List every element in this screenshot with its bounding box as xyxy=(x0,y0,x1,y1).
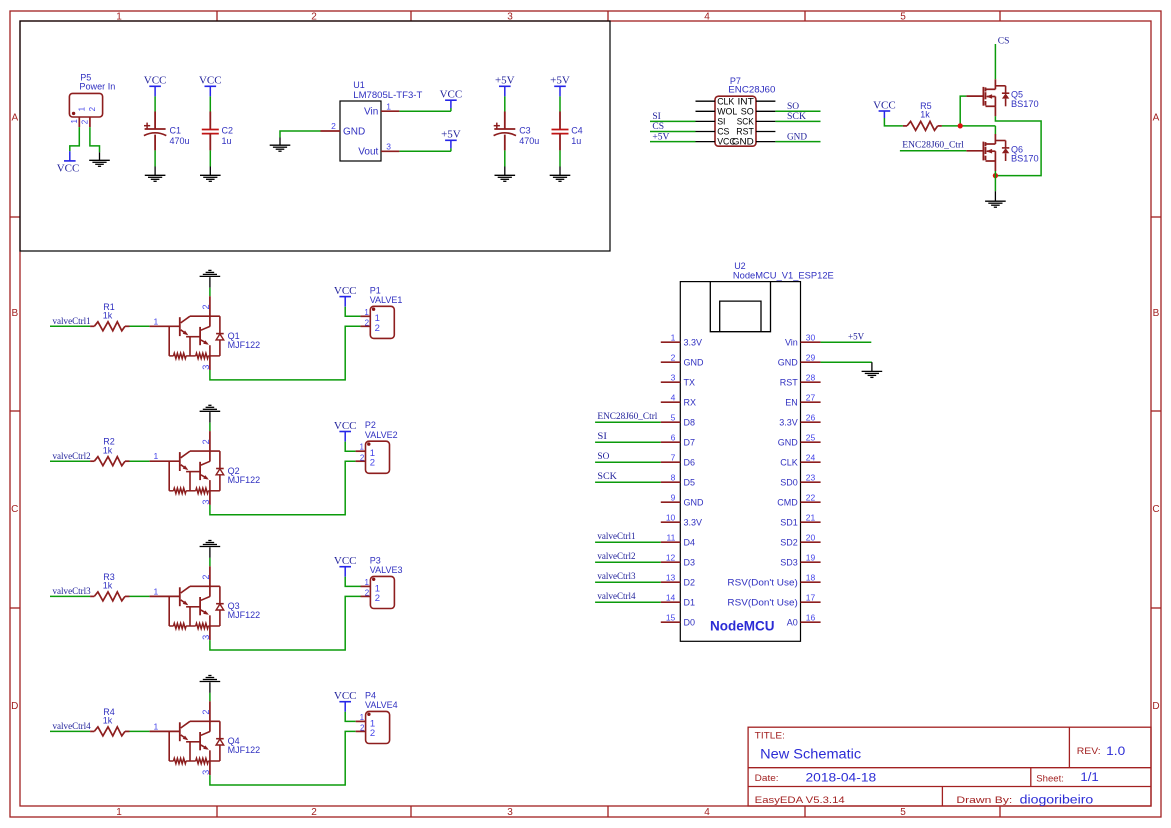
svg-text:20: 20 xyxy=(806,532,816,542)
net label valveCtrl4 wire (U2 pin 14) xyxy=(595,601,661,603)
wire U1 Vin to VCC xyxy=(399,110,451,112)
svg-text:+5V: +5V xyxy=(848,332,865,342)
svg-text:BS170: BS170 xyxy=(1011,154,1039,164)
svg-text:P2: P2 xyxy=(365,420,376,430)
wire Q2 emitter to P2 pin2 xyxy=(210,461,356,515)
svg-text:Drawn By:: Drawn By: xyxy=(956,795,1012,806)
U2 pin 29 (GND) xyxy=(801,361,821,363)
frame row ticks xyxy=(10,216,20,218)
U2 pin 22 (CMD) xyxy=(801,501,821,503)
P4 pin-1 marker dot xyxy=(367,713,370,716)
svg-text:VCC: VCC xyxy=(440,89,463,101)
svg-text:Sheet:: Sheet: xyxy=(1036,774,1064,785)
wire U2 pin 29 to ground xyxy=(821,361,872,363)
svg-text:28: 28 xyxy=(806,372,816,382)
Q1 pin 3 (emitter) xyxy=(209,356,211,370)
svg-text:valveCtrl2: valveCtrl2 xyxy=(597,551,635,561)
ground (C2) xyxy=(209,167,211,176)
svg-text:TX: TX xyxy=(684,377,696,387)
svg-text:2: 2 xyxy=(360,453,365,462)
P4 pin 2 xyxy=(356,730,366,732)
wire CS to Q5 drain xyxy=(994,44,996,79)
net label CS wire (P7) xyxy=(650,131,696,133)
svg-text:19: 19 xyxy=(806,552,816,562)
wire R3 to Q3 base xyxy=(130,595,150,597)
svg-text:D3: D3 xyxy=(684,557,696,567)
net label SI wire (U2 pin 6) xyxy=(595,441,661,443)
net label SI wire (P7) xyxy=(650,120,696,122)
ground flag (Q2 collector, inverted) xyxy=(200,410,221,412)
svg-text:3.3V: 3.3V xyxy=(684,517,703,527)
U2 pin 2 (GND) xyxy=(661,361,681,363)
svg-text:6: 6 xyxy=(671,432,676,442)
svg-text:2: 2 xyxy=(201,709,211,714)
svg-text:ENC28J60_Ctrl: ENC28J60_Ctrl xyxy=(597,411,658,421)
svg-text:1: 1 xyxy=(153,451,158,461)
svg-text:2: 2 xyxy=(88,106,97,111)
wire VCC to P2 pin1 xyxy=(345,442,355,452)
wire R2 to Q2 base xyxy=(130,460,150,462)
svg-text:A0: A0 xyxy=(787,617,798,627)
svg-text:VCC: VCC xyxy=(334,555,357,567)
ground (P5) xyxy=(99,152,101,160)
U1 pin 3 (Vout) xyxy=(381,150,399,152)
title block column dividers xyxy=(1068,727,1070,768)
net label valveCtrl2 wire (U2 pin 12) xyxy=(595,561,661,563)
net label SO wire (U2 pin 7) xyxy=(595,461,661,463)
U2 pin 8 (D5) xyxy=(661,481,681,483)
ground (C4) xyxy=(559,167,561,176)
ground (Q6 source) xyxy=(994,191,996,201)
P1 pin-1 marker dot xyxy=(372,308,375,311)
P7 pin row 5 (VCC/GND) xyxy=(696,141,716,143)
svg-text:3: 3 xyxy=(201,365,211,370)
P4 pin 1 xyxy=(356,720,366,722)
power flag VCC (C1) xyxy=(154,86,156,96)
svg-text:2: 2 xyxy=(201,574,211,579)
svg-text:3: 3 xyxy=(671,372,676,382)
Q3 pin 3 (emitter) xyxy=(209,626,211,640)
power flag VCC (P1) xyxy=(344,297,346,307)
svg-text:D1: D1 xyxy=(684,597,696,607)
svg-text:D8: D8 xyxy=(684,417,696,427)
svg-text:VCC: VCC xyxy=(334,285,357,297)
svg-text:2: 2 xyxy=(365,589,370,598)
svg-text:Vin: Vin xyxy=(785,337,798,347)
svg-text:1u: 1u xyxy=(571,136,581,146)
svg-text:1k: 1k xyxy=(103,310,113,320)
svg-text:2: 2 xyxy=(360,724,365,733)
svg-text:GND: GND xyxy=(732,137,754,147)
svg-text:RX: RX xyxy=(684,397,697,407)
svg-text:5: 5 xyxy=(900,807,906,818)
svg-text:VCC: VCC xyxy=(144,75,167,87)
Q4 pin 3 (emitter) xyxy=(209,761,211,775)
wire VCC to R5 xyxy=(884,118,903,126)
wire ground to Q3 collector xyxy=(209,558,211,566)
svg-text:12: 12 xyxy=(666,552,676,562)
svg-text:470u: 470u xyxy=(519,136,539,146)
power flag VCC (P5, inverted) xyxy=(69,151,71,161)
U2 pin 23 (SD0) xyxy=(801,481,821,483)
P5 pin 1 xyxy=(78,117,80,127)
P5 pin 2 xyxy=(89,117,91,127)
svg-text:GND: GND xyxy=(787,132,807,142)
resistor R4 1k xyxy=(90,730,94,732)
U2 pin 6 (D7) xyxy=(661,441,681,443)
wire valveCtrl3 to R3 xyxy=(50,595,90,597)
svg-text:1: 1 xyxy=(364,308,369,317)
wire ground to Q2 collector xyxy=(209,423,211,431)
svg-text:3.3V: 3.3V xyxy=(684,337,703,347)
svg-text:A: A xyxy=(11,113,18,124)
power supply section box xyxy=(20,21,610,251)
wire P5 pin2 to ground xyxy=(90,127,100,152)
svg-text:2: 2 xyxy=(201,304,211,309)
svg-text:1: 1 xyxy=(116,807,122,818)
svg-text:15: 15 xyxy=(666,612,676,622)
svg-text:D6: D6 xyxy=(684,457,696,467)
svg-text:8: 8 xyxy=(671,472,676,482)
svg-text:1k: 1k xyxy=(103,716,113,726)
svg-text:GND: GND xyxy=(684,357,705,367)
svg-text:EN: EN xyxy=(785,397,798,407)
svg-text:VCC: VCC xyxy=(334,690,357,702)
U2 pin 3 (TX) xyxy=(661,381,681,383)
resistor R3 1k xyxy=(90,595,94,597)
svg-text:CMD: CMD xyxy=(777,497,798,507)
svg-text:P1: P1 xyxy=(370,285,381,295)
svg-text:2: 2 xyxy=(671,352,676,362)
svg-text:GND: GND xyxy=(778,357,799,367)
svg-text:SD3: SD3 xyxy=(780,557,798,567)
svg-text:valveCtrl3: valveCtrl3 xyxy=(53,586,92,596)
svg-text:C1: C1 xyxy=(170,126,182,136)
svg-text:RSV(Don't Use): RSV(Don't Use) xyxy=(727,577,797,587)
svg-text:SO: SO xyxy=(741,106,754,116)
U2 pin 20 (SD2) xyxy=(801,541,821,543)
svg-text:29: 29 xyxy=(806,352,816,362)
net label +5V wire (U2 pin 30) xyxy=(821,341,872,343)
svg-text:2: 2 xyxy=(81,119,90,124)
U1 pin 1 (Vin) xyxy=(381,110,399,112)
svg-text:21: 21 xyxy=(806,512,816,522)
U2 pin 19 (SD3) xyxy=(801,561,821,563)
U2 pin 28 (RST) xyxy=(801,381,821,383)
U2 pin 25 (GND) xyxy=(801,441,821,443)
svg-text:B: B xyxy=(1153,308,1160,319)
wire to Q6 drain xyxy=(994,126,996,134)
svg-text:+5V: +5V xyxy=(652,132,669,142)
wire VCC to P4 pin1 xyxy=(345,712,356,722)
U2 pin 15 (D0) xyxy=(661,621,681,623)
svg-text:26: 26 xyxy=(806,412,816,422)
svg-text:Vin: Vin xyxy=(364,106,378,117)
power flag VCC (C2) xyxy=(209,86,211,96)
svg-text:SD2: SD2 xyxy=(780,537,798,547)
svg-text:24: 24 xyxy=(806,452,816,462)
svg-text:13: 13 xyxy=(666,572,676,582)
power flag VCC (R5) xyxy=(883,111,885,118)
svg-text:VALVE3: VALVE3 xyxy=(370,565,403,575)
svg-text:1k: 1k xyxy=(103,445,113,455)
wire VCC to P3 pin1 xyxy=(345,577,360,587)
svg-text:SCK: SCK xyxy=(787,112,806,122)
U2 pin 1 (3.3V) xyxy=(661,341,681,343)
svg-text:2: 2 xyxy=(370,728,375,739)
P5 pin-1 marker dot xyxy=(72,112,75,115)
net label valveCtrl1 wire (U2 pin 11) xyxy=(595,541,661,543)
net label valveCtrl3 wire (U2 pin 13) xyxy=(595,581,661,583)
U2 pin 5 (D8) xyxy=(661,421,681,423)
wire R1 to Q1 base xyxy=(130,325,150,327)
title block row dividers xyxy=(748,767,1151,769)
U2 pin 17 (RSV(Don't Use)) xyxy=(801,601,821,603)
svg-text:RST: RST xyxy=(736,127,754,137)
capacitor C3 470u (polarized) xyxy=(504,96,506,111)
Q2 pin 3 (emitter) xyxy=(209,491,211,505)
U1 pin 2 (GND) xyxy=(321,130,341,132)
svg-text:Vout: Vout xyxy=(358,147,378,158)
svg-text:1k: 1k xyxy=(920,110,930,120)
wire valveCtrl4 to R4 xyxy=(50,730,90,732)
net label SCK wire (P7) xyxy=(775,120,820,122)
P3 pin-1 marker dot xyxy=(372,578,375,581)
wire ground to Q4 collector xyxy=(209,693,211,701)
svg-text:VCC: VCC xyxy=(334,420,357,432)
svg-text:18: 18 xyxy=(806,572,816,582)
svg-text:1u: 1u xyxy=(222,136,232,146)
svg-text:RST: RST xyxy=(780,377,799,387)
svg-text:Power In: Power In xyxy=(79,82,115,92)
svg-text:SD0: SD0 xyxy=(780,477,798,487)
svg-text:10: 10 xyxy=(666,512,676,522)
svg-text:3: 3 xyxy=(507,807,513,818)
svg-text:D0: D0 xyxy=(684,617,696,627)
power flag VCC (P3) xyxy=(344,567,346,577)
svg-text:VCC: VCC xyxy=(873,99,896,111)
capacitor C2 1u xyxy=(209,96,211,111)
svg-text:1: 1 xyxy=(153,721,158,731)
svg-text:2: 2 xyxy=(370,458,375,469)
ground flag (Q1 collector, inverted) xyxy=(200,275,221,277)
svg-text:4: 4 xyxy=(704,807,710,818)
P3 pin 1 xyxy=(361,585,371,587)
junction (Q5 source/Q6 source/ground) xyxy=(993,173,998,178)
svg-text:MJF122: MJF122 xyxy=(228,745,261,755)
svg-text:VCC: VCC xyxy=(199,75,222,87)
svg-text:Date:: Date: xyxy=(755,773,779,784)
wire ENC28J60_Ctrl to Q6 gate xyxy=(900,150,966,152)
power flag +5V (C3) xyxy=(504,86,506,96)
svg-text:SI: SI xyxy=(717,117,725,127)
svg-text:25: 25 xyxy=(806,432,816,442)
U2 pin 11 (D4) xyxy=(661,541,681,543)
resistor R5 1k xyxy=(903,125,907,127)
resistor R2 1k xyxy=(90,460,94,462)
svg-text:MJF122: MJF122 xyxy=(228,340,261,350)
svg-text:23: 23 xyxy=(806,472,816,482)
svg-text:CS: CS xyxy=(652,122,664,132)
P3 pin 2 xyxy=(361,595,371,597)
svg-text:ENC28J60_Ctrl: ENC28J60_Ctrl xyxy=(902,141,964,151)
svg-text:4: 4 xyxy=(671,392,676,402)
U2 pin 30 (Vin) xyxy=(801,341,821,343)
svg-text:D7: D7 xyxy=(684,437,696,447)
svg-text:REV:: REV: xyxy=(1077,746,1101,757)
resistor R1 1k xyxy=(90,325,94,327)
svg-text:30: 30 xyxy=(806,332,816,342)
svg-text:17: 17 xyxy=(806,592,816,602)
svg-text:470u: 470u xyxy=(170,136,190,146)
svg-text:GND: GND xyxy=(343,127,365,138)
svg-text:1: 1 xyxy=(153,316,158,326)
wire valveCtrl2 to R2 xyxy=(50,460,90,462)
svg-text:3: 3 xyxy=(201,635,211,640)
wire P5 pin1 to VCC xyxy=(70,127,80,151)
svg-text:3: 3 xyxy=(201,500,211,505)
svg-text:2: 2 xyxy=(375,593,380,604)
svg-text:C3: C3 xyxy=(519,126,531,136)
title block border xyxy=(748,727,1151,806)
U2 pin 18 (RSV(Don't Use)) xyxy=(801,581,821,583)
ground (U2 GND) xyxy=(871,362,873,371)
U2 pin 10 (3.3V) xyxy=(661,521,681,523)
svg-text:5: 5 xyxy=(900,12,906,23)
svg-text:D4: D4 xyxy=(684,537,696,547)
P7 pin row 1 (CLK/INT) xyxy=(696,100,716,102)
svg-text:C2: C2 xyxy=(222,126,234,136)
svg-text:P3: P3 xyxy=(370,555,381,565)
svg-text:EasyEDA V5.3.14: EasyEDA V5.3.14 xyxy=(755,795,845,806)
svg-text:SI: SI xyxy=(597,431,607,441)
svg-text:27: 27 xyxy=(806,392,816,402)
svg-text:SD1: SD1 xyxy=(780,517,798,527)
svg-text:P4: P4 xyxy=(365,690,376,700)
svg-text:C: C xyxy=(1152,504,1159,515)
svg-text:BS170: BS170 xyxy=(1011,99,1039,109)
svg-text:D5: D5 xyxy=(684,477,696,487)
svg-text:SI: SI xyxy=(652,112,660,122)
wire U1 GND to ground xyxy=(280,131,321,138)
ground (C1) xyxy=(154,167,156,176)
wire Q5 source loop to Q6 source xyxy=(995,116,1041,175)
svg-text:GND: GND xyxy=(778,437,799,447)
junction (R5/Q5 gate/Q6 drain) xyxy=(958,123,963,128)
power flag VCC (P4) xyxy=(344,702,346,712)
svg-text:GND: GND xyxy=(684,497,705,507)
svg-text:RSV(Don't Use): RSV(Don't Use) xyxy=(727,597,797,607)
svg-text:1: 1 xyxy=(671,332,676,342)
svg-text:SO: SO xyxy=(787,102,799,112)
svg-text:1: 1 xyxy=(360,443,365,452)
svg-text:SCK: SCK xyxy=(597,471,617,481)
net label SCK wire (U2 pin 8) xyxy=(595,481,661,483)
svg-text:9: 9 xyxy=(671,492,676,502)
svg-text:diogoribeiro: diogoribeiro xyxy=(1020,795,1094,807)
power flag +5V (C4) xyxy=(559,86,561,96)
svg-text:VALVE1: VALVE1 xyxy=(370,295,403,305)
svg-text:1: 1 xyxy=(70,119,79,124)
svg-text:valveCtrl4: valveCtrl4 xyxy=(53,721,92,731)
svg-text:2018-04-18: 2018-04-18 xyxy=(806,773,877,785)
svg-text:11: 11 xyxy=(666,532,675,542)
P2 pin 2 xyxy=(356,460,366,462)
svg-text:2: 2 xyxy=(201,439,211,444)
P7 pin row 2 (WOL/SO) xyxy=(696,110,716,112)
net label GND wire (P7) xyxy=(775,141,820,143)
U2 pin 13 (D2) xyxy=(661,581,681,583)
svg-text:TITLE:: TITLE: xyxy=(755,731,785,742)
svg-text:D: D xyxy=(1152,701,1159,712)
svg-text:MJF122: MJF122 xyxy=(228,610,261,620)
svg-text:3.3V: 3.3V xyxy=(779,417,798,427)
svg-text:ENC28J60: ENC28J60 xyxy=(728,85,775,95)
svg-text:1/1: 1/1 xyxy=(1080,772,1098,784)
U2 pin 27 (EN) xyxy=(801,401,821,403)
svg-text:valveCtrl4: valveCtrl4 xyxy=(597,591,636,601)
U2 pin 7 (D6) xyxy=(661,461,681,463)
P7 pin row 4 (CS/RST) xyxy=(696,131,716,133)
svg-text:VALVE2: VALVE2 xyxy=(365,430,398,440)
svg-text:valveCtrl1: valveCtrl1 xyxy=(597,531,635,541)
U2 pin 4 (RX) xyxy=(661,401,681,403)
svg-text:1: 1 xyxy=(153,586,158,596)
frame column ticks xyxy=(216,11,218,21)
ground (U1) xyxy=(279,138,281,146)
svg-text:22: 22 xyxy=(806,492,816,502)
svg-text:valveCtrl1: valveCtrl1 xyxy=(53,316,91,326)
svg-text:2: 2 xyxy=(375,323,380,334)
svg-text:SCK: SCK xyxy=(737,117,754,127)
svg-text:2: 2 xyxy=(311,807,317,818)
svg-text:5: 5 xyxy=(671,412,676,422)
U2 pin 24 (CLK) xyxy=(801,461,821,463)
P7 pin row 3 (SI/SCK) xyxy=(696,120,716,122)
svg-text:New Schematic: New Schematic xyxy=(760,747,861,762)
svg-text:1: 1 xyxy=(77,106,86,111)
capacitor C1 470u (polarized) xyxy=(154,96,156,111)
wire Q3 emitter to P3 pin2 xyxy=(210,596,361,650)
wire U1 Vout to +5V xyxy=(399,150,451,152)
svg-text:CLK: CLK xyxy=(717,96,734,106)
svg-text:U1: U1 xyxy=(353,80,365,90)
P2 pin-1 marker dot xyxy=(367,442,370,445)
net label SO wire (P7) xyxy=(775,110,820,112)
U2 pin 12 (D3) xyxy=(661,561,681,563)
svg-text:B: B xyxy=(11,308,18,319)
svg-text:NodeMCU: NodeMCU xyxy=(710,619,775,634)
svg-text:CLK: CLK xyxy=(780,457,798,467)
svg-text:3: 3 xyxy=(386,142,391,152)
svg-text:14: 14 xyxy=(666,592,676,602)
U2 pin 16 (A0) xyxy=(801,621,821,623)
P2 pin 1 xyxy=(356,450,366,452)
U2 pin 14 (D1) xyxy=(661,601,681,603)
svg-text:VCC: VCC xyxy=(57,162,80,174)
ground flag (Q4 collector, inverted) xyxy=(200,681,221,683)
svg-text:2: 2 xyxy=(365,318,370,327)
ground (C3) xyxy=(504,167,506,176)
svg-text:valveCtrl3: valveCtrl3 xyxy=(597,571,636,581)
net label +5V wire (P7) xyxy=(650,141,696,143)
wire node to Q5 gate xyxy=(960,96,966,126)
ground flag (Q3 collector, inverted) xyxy=(200,546,221,548)
svg-text:valveCtrl2: valveCtrl2 xyxy=(53,451,91,461)
svg-text:MJF122: MJF122 xyxy=(228,475,261,485)
svg-text:INT: INT xyxy=(738,96,755,106)
wire Q1 emitter to P1 pin2 xyxy=(210,326,361,380)
